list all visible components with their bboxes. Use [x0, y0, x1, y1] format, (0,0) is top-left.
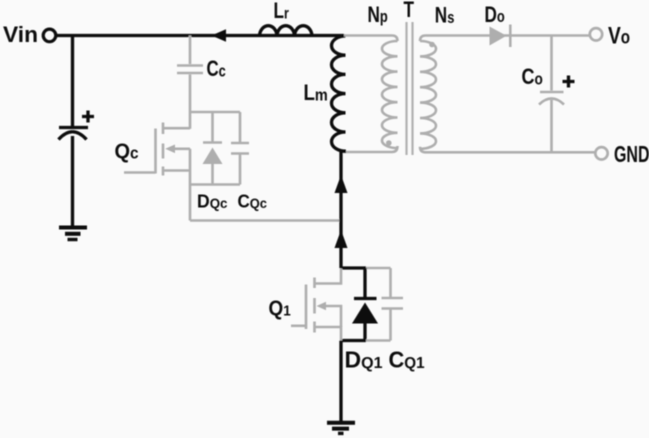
winding Np primary [382, 41, 398, 148]
wire clamp return to drain node [190, 219, 341, 222]
gate lead [124, 171, 156, 174]
diode DQc [203, 112, 223, 185]
current arrow on top wire (points left) [212, 29, 227, 41]
terminal Vin circle [43, 29, 56, 42]
gate bar [305, 285, 308, 330]
body arrow stub [172, 148, 190, 151]
plus sign input cap [82, 111, 94, 123]
channel segments [313, 278, 316, 289]
transistor Q1 [291, 269, 341, 341]
wire Cc to Qc drain [189, 75, 192, 129]
ground input [59, 228, 87, 240]
drain stub [316, 269, 342, 284]
inductor Lm [332, 36, 346, 151]
capacitor Cc [177, 66, 203, 74]
source stub [316, 327, 342, 341]
Q1 cell bottom rail black part [341, 339, 366, 342]
clamp cell right side lower [239, 155, 242, 185]
Q1 cell top rail black part [341, 266, 366, 269]
clamp cell top rail [190, 111, 240, 114]
terminal GND circle [595, 147, 607, 159]
wire input cap to ground [71, 136, 74, 226]
wire Q1 source to ground [339, 341, 342, 423]
svg-text:GND: GND [614, 141, 649, 167]
svg-text:Vin: Vin [3, 22, 38, 47]
svg-text:Vo: Vo [608, 21, 630, 49]
wire Np bottom lead [341, 146, 398, 152]
transistor Qc [124, 123, 190, 176]
winding Ns secondary [420, 41, 436, 149]
drain stub [164, 127, 190, 130]
ground main [327, 423, 355, 434]
label Lr [274, 0, 290, 24]
label DQ1 [345, 347, 383, 373]
wire Ns bottom lead [420, 147, 596, 153]
wire Co branch down [550, 36, 553, 91]
body arrow stub [323, 306, 341, 327]
capacitor CQ1 [382, 268, 404, 341]
wire drain node vertical [341, 151, 346, 268]
label Qc [115, 140, 139, 164]
wire Qc source rail down [189, 149, 192, 221]
label Vo [608, 21, 630, 49]
label CQc [238, 191, 268, 212]
capacitor input electrolytic [59, 128, 89, 140]
terminal Vo circle [590, 28, 602, 40]
capacitor CQc [231, 143, 249, 154]
wire Np top lead [344, 36, 398, 42]
wire top rail black Vin to Lm corner [56, 34, 344, 37]
current arrow 2 up [335, 230, 348, 248]
transformer core T [407, 22, 413, 155]
wire Ns top lead [420, 36, 591, 42]
inductor Lr [260, 26, 313, 36]
clamp cell bottom rail [190, 183, 240, 186]
label Do [485, 3, 505, 28]
wire Vin branch down to input cap [71, 36, 74, 127]
source stub [164, 169, 190, 172]
clamp cell right side upper [239, 112, 242, 142]
label Co [522, 65, 543, 89]
gate lead [291, 324, 306, 327]
current arrow 1 up [335, 175, 348, 193]
dot Np polarity [386, 140, 392, 146]
label DQc [197, 191, 228, 212]
Q1 cell bottom rail gray part [366, 339, 391, 342]
wire Co to bottom rail [550, 100, 553, 152]
channel segments [162, 123, 165, 135]
label CQ1 [389, 347, 425, 373]
svg-text:T: T [404, 0, 415, 22]
capacitor Co [539, 92, 564, 105]
diode DQ1 [352, 268, 378, 341]
Q1 cell top rail gray part [366, 267, 391, 270]
label Lm [304, 82, 328, 106]
wire Cc branch from top rail [189, 36, 192, 65]
label Ns [435, 4, 455, 29]
plus sign Co [563, 76, 575, 88]
dot Ns polarity [429, 42, 435, 48]
gate bar [154, 129, 157, 174]
diode Do [490, 25, 511, 48]
label Cc [207, 57, 226, 82]
label Np [368, 3, 388, 28]
label Q1 [269, 297, 291, 320]
